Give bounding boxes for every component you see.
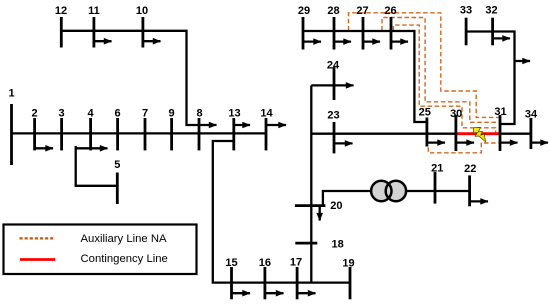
bus 18 tick [295, 242, 317, 245]
svg-text:26: 26 [384, 5, 396, 17]
bus 4 [89, 118, 92, 150]
bus 27 [362, 17, 365, 50]
load arrow bus 22 [470, 200, 488, 202]
bus 21 [434, 172, 437, 204]
load arrow bus 34 [531, 141, 548, 143]
svg-text:3: 3 [59, 108, 65, 120]
load arrow bus 14 [266, 124, 286, 126]
svg-text:10: 10 [136, 5, 148, 17]
svg-text:33: 33 [460, 5, 472, 17]
svg-text:1: 1 [8, 88, 14, 100]
bus 28 [333, 17, 336, 50]
bus 16 [263, 267, 266, 299]
bus 30 [454, 115, 457, 151]
bus 1 [10, 104, 13, 165]
auxiliary line NA path from bus26 to contingency line [393, 25, 495, 132]
bus 12 [60, 17, 63, 48]
bus 20 tick [295, 204, 326, 207]
load arrow bus 26 [391, 40, 408, 42]
bus 8 [198, 118, 201, 150]
svg-text:34: 34 [525, 109, 538, 121]
svg-text:23: 23 [327, 110, 339, 122]
bus 5 [116, 173, 119, 205]
load arrow bus 8 [199, 124, 217, 126]
bus 33 [465, 18, 468, 46]
load arrow bus 31 [500, 141, 518, 143]
svg-text:2: 2 [32, 108, 38, 120]
load arrow bus 23 [334, 142, 353, 144]
wire: branch bus4 to bus5 [76, 146, 118, 186]
svg-text:20: 20 [330, 200, 342, 212]
auxiliary line NA path from bus27 to bus31 [382, 18, 499, 123]
transformer T1 [371, 181, 406, 201]
bus 13 [232, 118, 235, 150]
svg-text:14: 14 [260, 108, 273, 120]
load arrow bus 10 [143, 40, 161, 42]
load arrow bus 20 (down) [319, 206, 321, 221]
fault lightning bolt on contingency line [473, 128, 486, 142]
load arrow bus 28 [334, 40, 351, 42]
load arrow bus 17 [297, 292, 315, 294]
bus 9 [170, 118, 173, 150]
legend auxiliary dashed sample [20, 237, 55, 239]
load arrow bus 32 [493, 37, 510, 39]
load arrow bus 15 [232, 292, 251, 294]
legend contingency red sample [20, 258, 55, 261]
load arrow on 32-31 branch [515, 60, 531, 62]
bus 24 [333, 67, 336, 100]
load arrow bus 30 [456, 141, 474, 143]
bus 26 [390, 17, 393, 50]
bus 22 [468, 175, 471, 206]
load arrow bus 27 [363, 40, 380, 42]
svg-text:6: 6 [115, 108, 121, 120]
bus 14 [265, 118, 268, 150]
svg-text:28: 28 [327, 5, 339, 17]
bus 11 [93, 17, 96, 48]
bus 34 [530, 118, 533, 149]
svg-text:7: 7 [142, 108, 148, 120]
wire: bus20 branch to transformer and buses 21-22 [323, 191, 470, 206]
load arrow bus 4 [76, 147, 108, 149]
wire: center vertical feeder bus24 corner down to bottom feeder [310, 85, 312, 282]
svg-text:8: 8 [196, 108, 202, 120]
load arrow bus 29 [303, 40, 321, 42]
svg-text:16: 16 [259, 257, 271, 269]
auxiliary line NA path from bus28 to bus31 [349, 13, 499, 118]
load arrow bus 11 [94, 40, 112, 42]
wire: branch 29-28-27-26 down to bus 25 [303, 31, 427, 122]
auxiliary line NA path from bus25 to bus31 [428, 143, 498, 153]
svg-text:5: 5 [114, 159, 120, 171]
svg-text:11: 11 [88, 5, 100, 17]
wire: main left feeder bus1-bus14 [12, 132, 267, 134]
svg-text:30: 30 [450, 108, 462, 120]
svg-text:25: 25 [419, 107, 431, 119]
bus 25 [425, 118, 428, 147]
svg-text:19: 19 [342, 258, 354, 270]
bus 17 [296, 267, 299, 299]
wire: bus13 to bottom feeder buses 15-19 [213, 141, 350, 283]
svg-text:15: 15 [225, 257, 237, 269]
bus 32 [491, 18, 494, 46]
wire: branch 33-32 down to bus 31 [466, 32, 514, 125]
load arrow bus 2 [35, 147, 53, 149]
load arrow bus 25 [427, 141, 445, 143]
svg-text:21: 21 [431, 163, 443, 175]
legend box [4, 225, 197, 275]
load arrow bus 13 [234, 124, 250, 126]
svg-text:Contingency Line: Contingency Line [81, 253, 168, 265]
svg-text:17: 17 [290, 256, 302, 268]
svg-text:4: 4 [88, 108, 95, 120]
contingency line (red) bus30-bus31 [456, 132, 500, 135]
svg-text:27: 27 [356, 5, 368, 17]
svg-text:18: 18 [332, 239, 344, 251]
svg-text:22: 22 [464, 163, 476, 175]
svg-text:29: 29 [298, 5, 310, 17]
svg-text:32: 32 [485, 5, 497, 17]
bus 7 [144, 118, 147, 150]
bus 19 [349, 267, 352, 299]
bus 29 [302, 17, 305, 50]
bus 23 [333, 122, 336, 153]
wire: branch 12-11-10 down to bus 8 [61, 31, 199, 125]
bus 2 [33, 118, 36, 150]
svg-text:Auxiliary Line NA: Auxiliary Line NA [81, 233, 167, 245]
bus 15 [230, 267, 233, 299]
svg-text:9: 9 [169, 108, 175, 120]
load arrow bus 16 [265, 292, 284, 294]
bus 10 [141, 17, 144, 48]
svg-text:24: 24 [327, 60, 340, 72]
svg-text:13: 13 [228, 108, 240, 120]
bus 31 [499, 115, 502, 151]
bus 6 [116, 118, 119, 150]
svg-text:12: 12 [55, 5, 67, 17]
svg-text:31: 31 [494, 106, 506, 118]
wire: right feeder bus23-bus34 [311, 133, 531, 135]
load arrow bus 24 with feed line [311, 84, 353, 86]
bus 3 [60, 118, 63, 150]
